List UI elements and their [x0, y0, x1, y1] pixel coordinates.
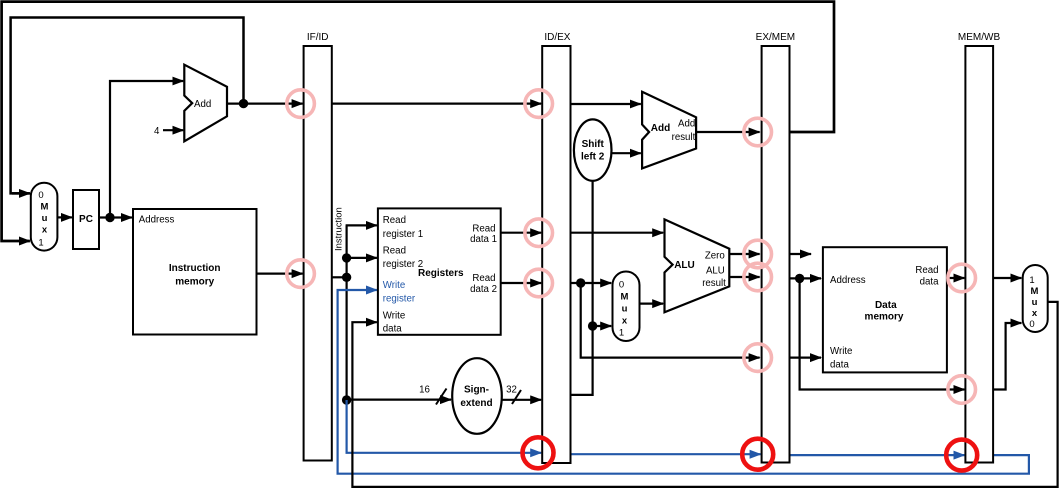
junction Add output — [239, 99, 248, 108]
ellipse Shift left 2 — [574, 119, 612, 180]
wire 16-bit immediate to sign-extend — [347, 399, 451, 401]
wire data memory read data to MEM/WB — [947, 277, 965, 279]
svg-text:Write: Write — [830, 346, 852, 357]
adder branch Add — [642, 92, 696, 169]
pipeline register EX/MEM — [762, 46, 790, 463]
block instruction memory — [133, 209, 257, 335]
highlight circle ID/EX read data 2 in — [525, 269, 553, 297]
wire write-register number ID/EX to EX/MEM (blue) — [571, 453, 761, 455]
svg-text:0: 0 — [619, 280, 624, 291]
svg-text:x: x — [1032, 308, 1038, 319]
svg-text:Registers: Registers — [418, 268, 464, 279]
svg-text:Instruction: Instruction — [169, 263, 221, 274]
highlight circle EX/MEM alu result in — [744, 263, 772, 291]
wire PC+4 loop (Add output to PC mux input 0) — [11, 18, 244, 194]
svg-text:EX/MEM: EX/MEM — [756, 32, 795, 43]
junction bus read register 2 — [342, 253, 351, 262]
svg-text:Read: Read — [915, 265, 938, 276]
wire Add output to IF/ID — [227, 102, 303, 104]
wire EX/MEM write data to data memory — [790, 357, 822, 359]
wire ALU result down to MEM/WB — [800, 278, 965, 389]
register PC — [73, 190, 99, 249]
svg-text:Data: Data — [875, 300, 897, 311]
highlight circle ID/EX pc+4 in — [525, 90, 553, 118]
wire PC output up to Add top input — [110, 81, 183, 218]
svg-text:ALU: ALU — [706, 266, 725, 277]
block Registers — [378, 208, 501, 334]
wire ID/EX PC+4 to branch Add — [571, 103, 641, 105]
svg-text:Zero: Zero — [705, 250, 725, 261]
svg-text:Read: Read — [472, 224, 495, 235]
tick 32 — [512, 390, 521, 404]
svg-text:Add: Add — [194, 99, 211, 110]
svg-text:IF/ID: IF/ID — [307, 32, 329, 43]
wire Read data 2 to ID/EX — [501, 282, 542, 284]
svg-text:memory: memory — [865, 312, 904, 323]
highlight circle bold ID/EX write register in — [523, 437, 554, 468]
ellipse Sign-extend — [452, 358, 502, 434]
junction read data 2 — [576, 278, 585, 287]
highlight circle bold EX/MEM write register in — [742, 439, 773, 470]
svg-text:Instruction: Instruction — [334, 207, 345, 251]
svg-text:ID/EX: ID/EX — [544, 32, 570, 43]
svg-text:4: 4 — [154, 126, 160, 137]
svg-text:data: data — [920, 277, 939, 288]
svg-text:M: M — [41, 202, 49, 213]
wire ALU result to EX/MEM — [729, 276, 759, 278]
wire branch Add result to EX/MEM — [696, 131, 760, 133]
block data memory — [823, 247, 947, 372]
svg-text:ALU: ALU — [674, 260, 695, 271]
highlight circle MEM/WB alu result in — [948, 376, 976, 404]
alu ALU — [665, 219, 730, 312]
svg-text:Shift: Shift — [582, 139, 605, 150]
svg-text:Add: Add — [678, 119, 695, 130]
pipeline register ID/EX — [542, 46, 570, 463]
tick 16 — [436, 389, 447, 405]
junction immediate to mux — [588, 321, 597, 330]
wire ALU Zero to EX/MEM — [729, 253, 759, 255]
highlight circle ID/EX read data 1 in — [525, 219, 553, 247]
svg-text:Sign-: Sign- — [464, 385, 489, 396]
svg-text:result: result — [672, 132, 696, 143]
wire ID/EX immediate up to shift left 2 — [571, 181, 593, 395]
highlight circle MEM/WB read data in — [948, 264, 976, 292]
wire IF/ID instruction output to bus — [332, 276, 347, 278]
highlight circle EX/MEM write data in — [744, 344, 772, 372]
wire instruction bus vertical — [346, 225, 348, 400]
svg-text:Write: Write — [383, 311, 405, 322]
wire EX/MEM ALU result to data memory Address — [790, 277, 822, 279]
svg-text:x: x — [42, 225, 48, 236]
svg-text:u: u — [622, 304, 628, 315]
svg-text:PC: PC — [79, 214, 93, 225]
svg-text:data: data — [830, 360, 849, 371]
svg-text:Address: Address — [139, 215, 175, 226]
svg-text:M: M — [621, 292, 629, 303]
wire Read data 1 to ID/EX — [501, 232, 542, 234]
junction bus immediate — [342, 395, 351, 404]
svg-text:16: 16 — [419, 385, 430, 396]
svg-text:register: register — [383, 294, 416, 305]
wire PC mux output to PC — [57, 216, 72, 218]
svg-text:0: 0 — [1029, 319, 1034, 330]
wire write-register number EX/MEM to MEM/WB (blue) — [790, 454, 965, 456]
svg-text:memory: memory — [175, 277, 214, 288]
svg-text:1: 1 — [619, 328, 624, 339]
adder Add (PC+4) — [184, 65, 227, 142]
wire MEM/WB read data to WB mux input 1 — [993, 277, 1021, 279]
mux write-back — [1023, 265, 1048, 332]
mux PC source — [31, 183, 58, 251]
svg-text:result: result — [702, 278, 726, 289]
wire branch-target loop (EX/MEM to PC mux input 1) — [2, 2, 834, 241]
wire ALU mux output to ALU — [640, 303, 664, 305]
wire constant 4 into Add — [163, 129, 183, 131]
svg-text:x: x — [622, 316, 628, 327]
highlight circle EX/MEM add result in — [744, 118, 772, 146]
junction PC output — [105, 213, 114, 222]
svg-text:register 1: register 1 — [383, 229, 423, 240]
svg-text:1: 1 — [1029, 275, 1034, 286]
wire to Read register 1 — [346, 224, 377, 226]
wire write-register number return to Registers Write register (blue) — [338, 290, 1029, 474]
svg-text:M: M — [1031, 286, 1039, 297]
svg-text:MEM/WB: MEM/WB — [958, 32, 1001, 43]
wire MEM/WB ALU result to WB mux input 0 — [993, 323, 1021, 390]
wire ID/EX read data 1 to ALU — [571, 232, 664, 234]
highlight circle bold MEM/WB write register in — [946, 440, 977, 471]
svg-text:Read: Read — [383, 215, 406, 226]
svg-text:u: u — [42, 213, 48, 224]
svg-text:u: u — [1032, 297, 1038, 308]
wire PC output to instruction memory Address — [99, 216, 132, 218]
pipeline register IF/ID — [304, 46, 332, 461]
junction ALU result — [795, 274, 804, 283]
svg-text:Read: Read — [472, 273, 495, 284]
wire immediate branch to ALU mux input 1 — [593, 325, 612, 327]
svg-text:Read: Read — [383, 246, 406, 257]
highlight circle EX/MEM zero in — [744, 240, 772, 268]
svg-text:1: 1 — [38, 238, 43, 249]
svg-text:0: 0 — [38, 190, 43, 201]
svg-text:Address: Address — [830, 275, 866, 286]
svg-text:32: 32 — [506, 385, 517, 396]
highlight circle IF/ID pc+4 in — [287, 90, 315, 118]
wire IF/ID PC+4 to ID/EX — [332, 102, 541, 104]
mux ALU operand — [613, 272, 640, 342]
wire shift left 2 output to branch Add — [612, 152, 641, 154]
wire instruction memory output to IF/ID — [257, 273, 303, 275]
wire write-register number blue bus to ID/EX — [347, 400, 542, 453]
svg-text:data: data — [383, 324, 402, 335]
svg-text:data 1: data 1 — [470, 234, 497, 245]
svg-text:left 2: left 2 — [581, 152, 605, 163]
wire EX/MEM zero out (dangling) — [790, 253, 812, 255]
svg-text:Write: Write — [383, 280, 405, 291]
svg-text:Add: Add — [651, 123, 670, 134]
wire sign-extend output to ID/EX — [499, 399, 541, 401]
pipeline register MEM/WB — [965, 46, 993, 463]
highlight circle IF/ID instruction in — [287, 260, 315, 288]
wire to Read register 2 — [347, 257, 377, 259]
svg-text:extend: extend — [460, 398, 492, 409]
svg-text:data 2: data 2 — [470, 284, 497, 295]
wire read data 2 down to EX/MEM write data — [581, 283, 760, 358]
wire ID/EX read data 2 to ALU mux input 0 — [571, 282, 612, 284]
junction bus instruction entry — [342, 273, 351, 282]
wire write data feedback from WB mux to Registers Write data — [352, 302, 1057, 487]
